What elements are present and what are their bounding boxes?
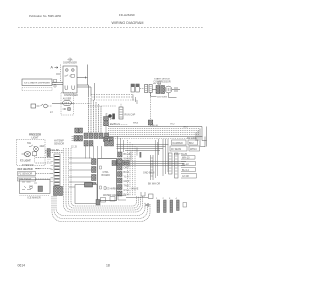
wires plug row to board [86,146,102,159]
wire harness to compressor [91,83,137,104]
svg-text:GY-1: GY-1 [124,189,130,192]
overload protector blocks [156,86,168,99]
svg-text:SENSOR: SENSOR [54,143,64,146]
condenser fan motor M2 [108,114,135,120]
lower mid wires [129,162,186,166]
main riser bundle [89,96,102,133]
strip top labels [131,188,178,201]
right bus wires [105,127,203,137]
title block publication number [29,14,62,18]
defrost label [22,164,34,167]
dispenser solenoid L1 [65,69,68,72]
freezer light dashed box [17,140,46,166]
compressor motor M1 [165,86,172,93]
evap fan label [20,160,31,163]
door loop harness outer lines [52,196,150,222]
dispenser lower label [64,94,78,97]
compressor area junction wires [151,93,177,98]
dispenser switch S1 [65,74,75,77]
svg-text:WIRING DIAGRAM: WIRING DIAGRAM [112,21,144,25]
right mid label texts [174,137,197,156]
door switch row [31,104,53,114]
wires strips to board [69,158,92,187]
plug blocks below compressor [104,117,116,138]
wire to water valve [126,194,153,199]
svg-text:SW: SW [27,142,32,145]
svg-text:DISPENSER: DISPENSER [63,62,77,65]
svg-text:AUGER: AUGER [63,97,72,100]
dispenser label [63,59,77,65]
auger motor M4 [62,100,71,105]
bottom strip 4 [177,200,180,211]
auger motor label [63,97,72,100]
svg-text:GND BK-8: GND BK-8 [143,172,155,175]
svg-text:BK-22: BK-22 [182,163,189,166]
auger motor dashed box [61,93,74,116]
wire dispenser to ladder [52,83,63,85]
right mid ladder strips [169,153,179,178]
svg-text:PK-4: PK-4 [124,194,130,197]
wire auger crossing [52,103,90,105]
dispenser heater pair [65,86,74,90]
svg-text:FF SENS: FF SENS [171,148,182,151]
main control board U2 [98,159,117,201]
svg-text:ICE & WATER DISPENSER: ICE & WATER DISPENSER [24,82,50,85]
loop cluster label [106,188,122,191]
freezer light label [29,133,41,140]
svg-text:1: 1 [156,198,158,200]
ice maker box [20,180,51,194]
wire compressor right stub [153,88,181,91]
svg-text:OR-7: OR-7 [124,167,130,170]
bottom right mark [183,203,187,208]
svg-text:DEF HEATER: DEF HEATER [18,168,33,171]
svg-text:RD-2: RD-2 [124,162,130,165]
svg-text:18: 18 [106,264,110,268]
evap fan marks [33,152,37,163]
svg-text:BK-16: BK-16 [124,153,131,156]
svg-text:BU-5: BU-5 [124,171,130,174]
freezer fan motor M3 [22,152,31,157]
ice water dispenser dashed extension [22,88,52,91]
svg-text:BOARD: BOARD [102,174,111,177]
svg-text:WATER VALVE: WATER VALVE [103,194,120,197]
title block model number [119,13,135,17]
right mid boxed label row 2 [170,146,200,151]
ice water dispenser box [22,79,52,86]
plug row second [84,141,114,147]
bus wire labels [114,123,189,129]
svg-text:FZ LIGHT: FZ LIGHT [20,160,31,163]
wire dashed riser left of dispenser [60,65,62,82]
wire wavy feed [110,124,128,126]
mid wires second bus [117,145,169,151]
svg-text:DAMPER: DAMPER [173,142,184,145]
run capacitor C1 [119,104,123,119]
ice maker plug blocks [54,187,63,196]
svg-text:TN-6: TN-6 [124,185,130,188]
svg-text:LIGHT: LIGHT [31,136,39,139]
water valve star [145,203,150,207]
connector strip P5 [51,154,61,188]
bus drop wires to board [118,136,124,152]
svg-text:WH-8: WH-8 [124,158,131,161]
vertical harness label [106,113,109,126]
svg-text:A: A [51,66,54,70]
door loop harness bundle [64,192,143,212]
svg-text:FD-H264NF: FD-H264NF [119,13,135,17]
ice maker label [20,196,50,200]
svg-text:WH-10: WH-10 [182,157,190,160]
svg-text:ICE MAKER: ICE MAKER [27,197,40,200]
title block diagram title [112,21,144,25]
svg-text:0614: 0614 [18,263,26,267]
loop inner cluster [101,194,127,202]
left label stack row1 [18,168,41,171]
svg-text:VALVE: VALVE [131,188,139,191]
board right plug column [118,152,123,196]
mid riser column right [131,139,168,176]
footer page number [106,264,110,268]
plug row above main board [84,133,109,139]
svg-text:J2 J3: J2 J3 [71,146,77,149]
bus left end plugs [104,137,114,142]
svg-text:WH-6: WH-6 [133,123,139,125]
svg-text:INTERIOR: INTERIOR [22,164,34,167]
node A arrow [51,66,59,70]
bus right corner drops [196,127,207,148]
svg-text:BK2: BK2 [189,142,194,145]
plug cluster left J2 [71,128,83,149]
plug blobs board right [112,161,129,166]
footer date code [18,263,26,267]
svg-text:3: 3 [169,198,171,200]
resistor glyphs near dispenser [54,80,57,88]
svg-text:2J: 2J [50,111,53,114]
svg-text:CN2: CN2 [50,149,55,152]
right lower bracket rows [181,156,197,179]
board left plug column [92,159,97,198]
svg-text:WH13: WH13 [190,148,197,151]
vertical connector column right of board [151,155,154,180]
svg-text:GY-08: GY-08 [182,175,189,178]
svg-text:4: 4 [176,198,178,200]
dispenser solenoid L2 [71,69,74,72]
svg-text:GY-2: GY-2 [170,124,175,126]
freezer lamp DS1 [34,145,46,151]
svg-text:GN-3: GN-3 [124,180,130,183]
start relay pair [131,84,139,92]
board right pin labels [124,153,131,197]
small U connector [141,192,145,196]
svg-text:RUN CAP: RUN CAP [125,114,136,117]
title separator dashed line [18,27,203,29]
extra riser pins [156,140,158,178]
wire top harness horizontal pair [77,85,91,87]
inner rect corner marks [96,200,100,206]
svg-text:BK WH OR: BK WH OR [148,183,160,186]
svg-text:BU-14: BU-14 [182,169,189,172]
svg-text:COMPRESSOR: COMPRESSOR [153,81,171,84]
right mid boxed label row 1 [172,140,198,145]
wires freezer box to strip [47,149,50,163]
strip labels text [50,149,60,152]
svg-text:40W: 40W [40,145,46,148]
left harness bundle risers [64,148,72,192]
svg-text:BK: BK [56,149,60,152]
right riser bundle [128,140,136,196]
fill tube heater [85,183,93,188]
wire stub into dispenser [56,74,88,79]
bottom strip 1 [157,200,160,213]
compressor feed drop [148,93,153,127]
ice door solenoid [63,107,71,111]
left label stack row3 [18,177,36,181]
wire harness corner drop [88,65,92,97]
freezer light switch S2 [27,142,35,147]
svg-text:YL-9: YL-9 [124,176,130,179]
compressor relay block K1 [145,85,153,93]
bottom strip 2 [164,200,167,213]
inner white rect [75,185,97,204]
wire door switch dashed run [88,105,116,107]
wire dashed run cap feed [140,82,161,89]
small label row under column [143,172,160,186]
svg-text:2: 2 [163,198,165,200]
svg-text:FZ HARNESS: FZ HARNESS [106,188,122,191]
svg-text:FZ SENSOR: FZ SENSOR [19,173,33,176]
high temp label [54,140,64,146]
right bus dotted wires [108,129,200,139]
svg-text:Publication No. 5995-H050: Publication No. 5995-H050 [29,14,62,18]
svg-text:PTC: PTC [110,118,115,121]
left label stack row2 [18,172,36,176]
compressor overload label [153,78,171,84]
left stack wires [36,151,64,180]
dispenser control U1 box [63,58,77,94]
svg-text:OR-9: OR-9 [183,127,189,129]
svg-text:115V 60HZ: 115V 60HZ [157,97,168,99]
svg-text:DC GND: DC GND [187,137,197,140]
bottom strip 3 [170,200,173,213]
